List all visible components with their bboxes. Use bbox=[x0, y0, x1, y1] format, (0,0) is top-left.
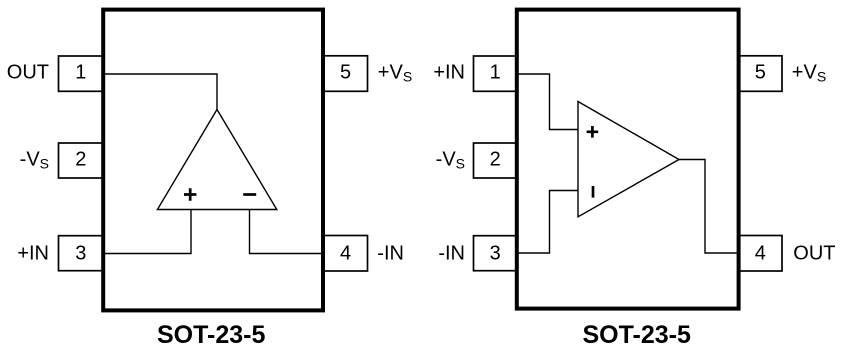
pin 4 box (left pkg) bbox=[323, 236, 368, 272]
svg-text:SOT-23-5: SOT-23-5 bbox=[583, 321, 691, 349]
svg-text:+VS: +VS bbox=[378, 62, 412, 85]
svg-text:4: 4 bbox=[755, 243, 766, 265]
svg-text:3: 3 bbox=[490, 243, 501, 265]
svg-text:SOT-23-5: SOT-23-5 bbox=[157, 321, 265, 349]
pin 3 box (left pkg) bbox=[59, 236, 104, 271]
op-amp A2 plus mark (non-inverting input) bbox=[587, 126, 599, 138]
pin 5 box (left pkg) bbox=[323, 56, 368, 92]
op-amp A1 minus mark (inverting input) bbox=[243, 193, 256, 196]
op-amp A2 minus mark (inverting input, vertical bar) bbox=[592, 186, 595, 198]
IC package body U1 (left SOT-23-5) bbox=[103, 10, 323, 311]
pin 4 box (right pkg) bbox=[739, 236, 782, 272]
svg-text:-IN: -IN bbox=[438, 243, 465, 265]
svg-text:-VS: -VS bbox=[436, 149, 465, 172]
pin 3 box (right pkg) bbox=[474, 236, 517, 271]
wire op-amp A2 output to pin4 (right pkg) bbox=[679, 160, 739, 254]
op-amp A2 triangle (right pkg, pointing right) bbox=[578, 102, 679, 217]
wire pin1 to op-amp A2 non-inverting input (right pkg) bbox=[517, 74, 578, 130]
svg-text:5: 5 bbox=[340, 62, 351, 84]
svg-text:2: 2 bbox=[490, 149, 501, 171]
svg-text:-VS: -VS bbox=[20, 149, 49, 172]
svg-text:+VS: +VS bbox=[792, 62, 826, 85]
wire pin3 to op-amp A1 non-inverting input (left pkg) bbox=[103, 210, 191, 254]
svg-text:OUT: OUT bbox=[793, 243, 835, 265]
pin 2 box (right pkg) bbox=[474, 143, 517, 178]
op-amp A1 triangle (left pkg, pointing up) bbox=[157, 110, 276, 210]
svg-text:1: 1 bbox=[490, 62, 501, 84]
wire pin4 to op-amp A1 inverting input (left pkg) bbox=[250, 210, 324, 254]
svg-text:5: 5 bbox=[755, 62, 766, 84]
svg-text:-IN: -IN bbox=[377, 243, 404, 265]
svg-text:1: 1 bbox=[75, 62, 86, 84]
IC package body U2 (right SOT-23-5) bbox=[517, 10, 739, 309]
svg-text:3: 3 bbox=[75, 243, 86, 265]
pin 1 box (right pkg) bbox=[474, 56, 517, 91]
svg-text:+IN: +IN bbox=[433, 62, 465, 84]
svg-text:OUT: OUT bbox=[7, 62, 49, 84]
svg-text:4: 4 bbox=[340, 243, 351, 265]
svg-text:+IN: +IN bbox=[17, 243, 49, 265]
wire pin1 to op-amp A1 output (left pkg) bbox=[103, 74, 217, 110]
op-amp A1 plus mark (non-inverting input) bbox=[184, 188, 196, 200]
pin 2 box (left pkg) bbox=[59, 143, 104, 178]
pin 5 box (right pkg) bbox=[739, 56, 782, 92]
pin 1 box (left pkg) bbox=[59, 56, 104, 91]
wire pin3 to op-amp A2 inverting input (right pkg) bbox=[517, 191, 578, 254]
svg-text:2: 2 bbox=[75, 149, 86, 171]
